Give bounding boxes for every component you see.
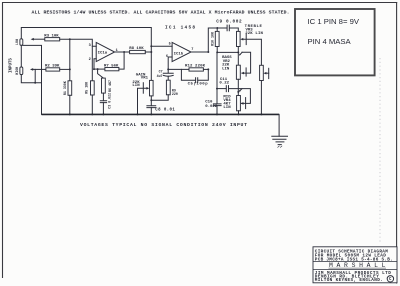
wire: VR1 bottom to C8 [150,96,152,106]
wire: C11 lead left [217,88,226,90]
svg-text:HIGH: HIGH [15,67,19,75]
wire: HIGH tip branch down [34,69,36,82]
wire: VR3 wiper to volume column [243,39,262,65]
jack J1 LOW body [20,39,23,46]
svg-text:R12 220K: R12 220K [185,64,206,68]
VR3 wiper arrow [240,38,243,41]
wire: C7 top lead [167,69,169,73]
bass wiper arrow tip [241,72,244,75]
wire: R9 to C8 node [151,95,168,100]
wire: jack column and top rail to IC1b area [21,28,151,81]
svg-text:R3 10K: R3 10K [44,34,59,38]
mid wiper arrow tip [241,102,244,105]
junction dot mid top [237,91,239,93]
svg-text:4u7: 4u7 [157,74,163,78]
page border left [2,2,4,278]
svg-text:R7 56K: R7 56K [104,64,119,68]
svg-text:R8 10K: R8 10K [129,47,144,51]
wire: VR3 bottom to tone node [237,47,239,53]
wire: LOW tip to R3 [33,38,45,40]
resistor R6 body [102,78,106,93]
wire: VR1 wiper lead [138,88,148,114]
junction dot C10/C11 node [216,88,218,90]
junction dot gain column lower [150,51,152,53]
resistor R10 body [215,31,219,46]
svg-text:LIN: LIN [223,106,231,110]
svg-text:INPUTS: INPUTS [10,58,14,73]
junction dot R5 bus [91,113,93,115]
svg-text:C3 0.022: C3 0.022 [107,93,111,109]
resistor R7 body [105,68,119,71]
capacitor bar on volume wiper [268,68,270,78]
wire: tone node to bass pot top [237,52,239,65]
junction dot gain column upper [150,45,152,47]
ground bus [42,113,280,115]
op-amp U1a triangle [96,42,114,61]
mid wiper diagonal [240,89,242,91]
copyright symbol [387,276,393,282]
dashed margin line [379,58,381,242]
resistor R3 body [45,38,60,41]
wire: left tone column down [216,52,218,88]
wire: pin 6 stub to feedback node [168,57,172,69]
HIGH tip contact arrow [30,68,33,71]
resistor R1 body [68,81,72,96]
svg-text:VR1: VR1 [141,77,149,81]
resistor R9 body [166,80,170,95]
wire: R6 to C3 [102,93,104,101]
svg-text:LIN: LIN [132,84,140,88]
annotation box [295,9,375,75]
wire: C8 to ground bus [150,108,152,115]
capacitor C6 bar on wiper [142,83,144,94]
wire: bass wiper loop [242,52,251,73]
junction dot tone node left [216,51,218,53]
wire: R3 to op-amp input node [60,39,96,46]
ground symbol [272,136,288,144]
svg-text:3: 3 [89,44,91,48]
junction dot output node [123,51,125,53]
svg-text:R2 39K: R2 39K [45,65,60,69]
potentiometer VR5 VOLUME body [260,65,264,80]
capacitor C9 plates [227,25,229,31]
wire: R1 to ground bus [69,95,71,114]
wire: C5 loop left leg [181,69,195,80]
junction dot C3 bus [102,113,104,115]
op-amp U1b triangle [172,42,191,61]
wire: C7 to R9 [167,76,169,80]
wire: mid top lead [237,92,239,96]
resistor R8 body [130,50,146,53]
svg-text:ALL RESISTORS 1/4W UNLESS STAT: ALL RESISTORS 1/4W UNLESS STATED. ALL CA… [32,9,290,15]
svg-text:5: 5 [169,43,171,47]
resistor R12 body [189,68,203,71]
wire: R5 tap from pin3 node [91,46,93,81]
junction dot C8 node [150,99,152,101]
wire: R10 bottom to node [216,47,218,53]
wire: tone node crossbar [217,51,238,53]
MARSHALL underline [329,267,387,269]
wire: bus to ground symbol [278,114,280,136]
svg-text:2: 2 [89,58,91,62]
junction dot R12 output [207,68,209,70]
svg-text:C10: C10 [205,100,213,104]
svg-text:IC1a: IC1a [98,51,108,55]
wire: C10 to ground bus [216,106,218,115]
junction dot wiper bus [137,113,139,115]
svg-text:IC1 1458: IC1 1458 [165,26,195,31]
page border top [2,2,397,4]
wire: LOW jack contact to vertical drop [23,45,42,114]
capacitor bar on mid wiper [245,98,247,109]
junction dot C8 bus [150,113,152,115]
svg-text:C8 0.01: C8 0.01 [155,109,175,113]
resistor R2 body [46,68,60,71]
wire: C3 to ground bus [102,103,104,115]
wire: HIGH jack sleeve to ground row [21,75,41,83]
wire: IC1b output to tone rail [191,28,217,52]
wire: C5 loop right leg [198,69,208,80]
junction dot R3/R1 node [69,38,71,40]
svg-text:C5|100p: C5|100p [188,82,209,87]
svg-text:R5 18K: R5 18K [85,82,89,94]
wire: R12 to output column [203,68,208,70]
svg-text:LOW: LOW [15,39,19,45]
VR1 wiper arrow [146,87,149,90]
junction dot mid bus [238,113,240,115]
svg-text:PIN 4 MASA: PIN 4 MASA [308,37,352,46]
svg-text:IC 1 PIN 8= 9V: IC 1 PIN 8= 9V [308,17,360,26]
wire: VR5 wiper lead [266,72,269,74]
potentiometer VR2 BASS body [236,65,240,79]
capacitor bar on treble wiper [245,34,247,45]
svg-text:VOLTAGES TYPICAL NO SIGNAL CON: VOLTAGES TYPICAL NO SIGNAL CONDITION 240… [80,122,247,128]
wire: C11 to mid wiper loop [229,89,251,104]
wire: R10 top lead [216,28,218,31]
svg-text:IC1b: IC1b [174,52,184,57]
title block outer frame [313,247,397,283]
capacitor C5 plates [196,78,198,83]
svg-text:C9 0.002: C9 0.002 [216,20,242,25]
junction dot R1 bus [69,113,71,115]
ground symbol hatch [278,146,283,148]
junction dot IC1b output [207,51,209,53]
svg-text:MILTON KEYNES, ENGLAND.: MILTON KEYNES, ENGLAND. [315,278,383,283]
title block divider upper [313,261,397,263]
wire: tone rail to C9 [217,27,227,29]
junction dot tone node right [237,51,239,53]
junction dot volume bus [260,113,262,115]
wire: op-amp output to R8 [115,51,130,53]
junction dot C10 bus [216,113,218,115]
wire: pin 2 stub down to feedback node [94,59,96,69]
svg-text:22K LIN: 22K LIN [245,32,263,36]
wire: HIGH tip to R2 [32,68,46,70]
wire: bass pot bottom to mid top [237,79,239,92]
svg-text:0.22: 0.22 [219,82,229,86]
svg-text:LIN: LIN [222,67,230,71]
LOW tip contact arrow [31,38,34,41]
junction dot tone rail R10 [216,27,218,29]
junction dot ground row [34,82,36,84]
capacitor C11 plates [226,86,228,92]
capacitor C3 plates [100,101,106,103]
wire: R1 column upper [69,39,71,81]
VR5 wiper arrow [263,72,266,75]
wire: VR5 bottom to ground bus [260,81,262,115]
wire: feedback node to R12 [168,68,189,70]
junction dot pin2 node [93,68,95,70]
wire: step down to R6 [98,69,104,78]
capacitor bar on bass wiper [245,68,247,76]
svg-text:R1 330K: R1 330K [63,81,67,95]
svg-text:220: 220 [172,92,178,96]
junction dot pin6 node [167,68,169,70]
wire: pin2 node to R7 [94,68,105,70]
potentiometer VR1 GAIN body [150,80,154,96]
svg-text:R6 4K7: R6 4K7 [108,80,112,92]
page border right [396,2,398,284]
jack J2 HIGH body [20,67,23,75]
wire: between jacks [20,45,22,67]
title block divider lower [313,269,397,271]
wire: R7 to output node [119,52,124,69]
wire: C9 to treble pot top [230,28,239,31]
junction dot R6 branch [97,68,99,70]
wire: mid pot bottom to bus [238,111,240,115]
capacitor C8 plates [147,106,156,108]
capacitor C10 plates [213,104,221,106]
wire: R2 to R1 column [60,68,70,70]
wire: R5 to ground bus [91,95,93,114]
potentiometer VR3 TREBLE body [237,31,241,46]
junction dot R2/R1 node [69,68,71,70]
capacitor C7 plates [163,73,173,76]
potentiometer VR4 MID body [237,96,241,111]
wire: R8 to gain column [145,51,151,53]
wire: C10 column [216,89,218,104]
resistor R5 body [91,81,95,95]
bass wiper arrow diagonal [240,52,242,54]
svg-text:C7: C7 [159,70,163,74]
svg-text:0.022: 0.022 [205,105,218,109]
wire: pin 5 feed [151,45,172,47]
svg-text:R10 10K: R10 10K [210,32,214,46]
